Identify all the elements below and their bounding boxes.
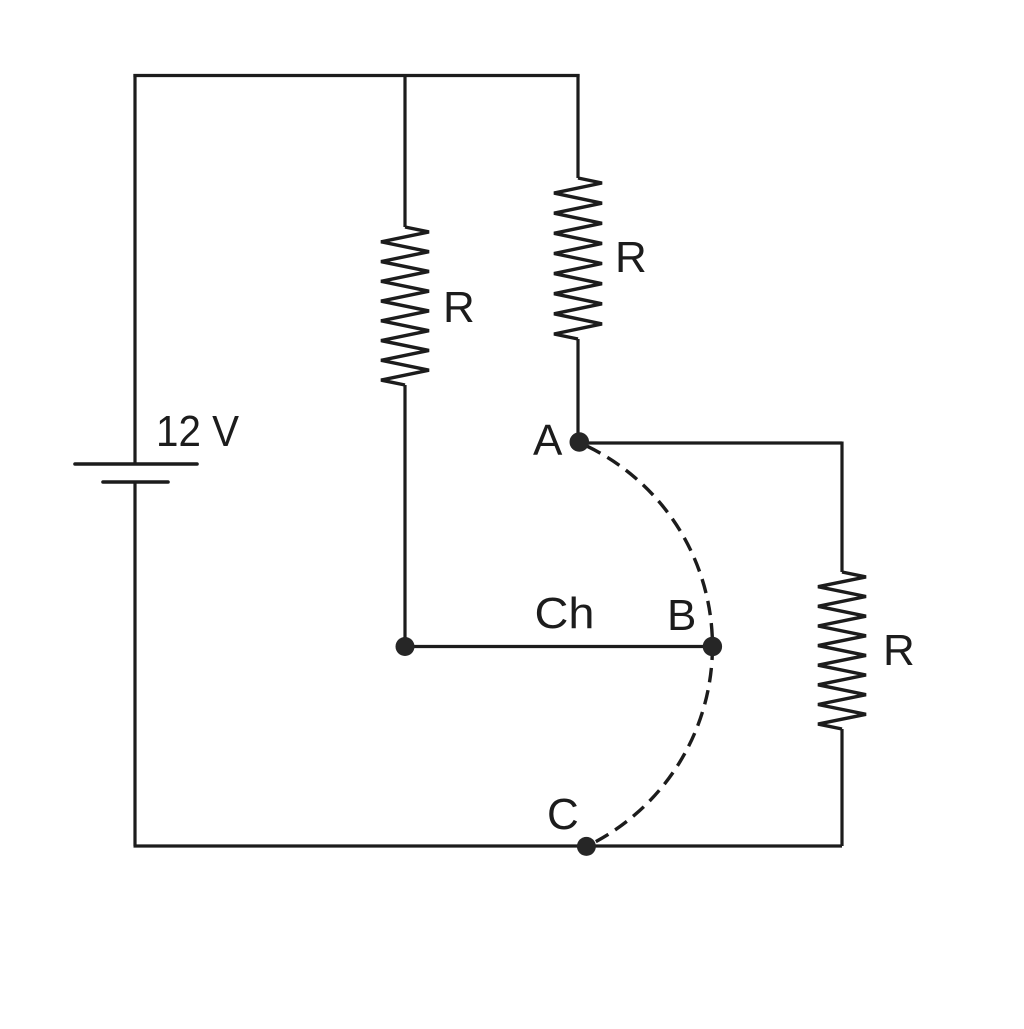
wire right down (corner to resistor R right)	[840, 442, 843, 573]
wire node A to right corner	[579, 441, 842, 444]
wire left lower (battery - lead down)	[133, 482, 136, 846]
svg-text:C: C	[547, 790, 579, 839]
node junction (Ch pivot dot)	[396, 637, 415, 656]
svg-text:Ch: Ch	[535, 589, 595, 638]
wire middle top (to resistor R middle)	[403, 74, 406, 227]
svg-text:12 V: 12 V	[156, 407, 240, 456]
node C	[577, 837, 596, 856]
battery B1 (12 V source)	[75, 464, 197, 482]
resistor R (top right branch)	[554, 178, 602, 339]
wire Ch (switch arm)	[405, 645, 712, 648]
wire right lower (resistor to bottom)	[840, 729, 843, 846]
wire left (battery top lead)	[133, 74, 136, 464]
wire top (battery + to branches)	[135, 74, 578, 77]
svg-text:R: R	[615, 233, 647, 282]
switch travel arc Ch (dashed, A through B to C)	[579, 443, 712, 847]
wire right-branch top (to resistor R top right)	[576, 74, 579, 178]
node A	[570, 432, 590, 452]
wire bottom	[134, 844, 843, 847]
resistor R (middle branch)	[381, 227, 429, 385]
svg-text:R: R	[443, 283, 475, 332]
node B	[703, 637, 722, 656]
svg-text:B: B	[667, 591, 696, 640]
wire middle bottom (resistor to Ch pivot)	[403, 385, 406, 647]
wire right-branch bottom (resistor to node A)	[576, 339, 579, 443]
svg-text:A: A	[533, 416, 563, 465]
svg-text:R: R	[883, 626, 915, 675]
resistor R (right branch)	[818, 572, 866, 729]
